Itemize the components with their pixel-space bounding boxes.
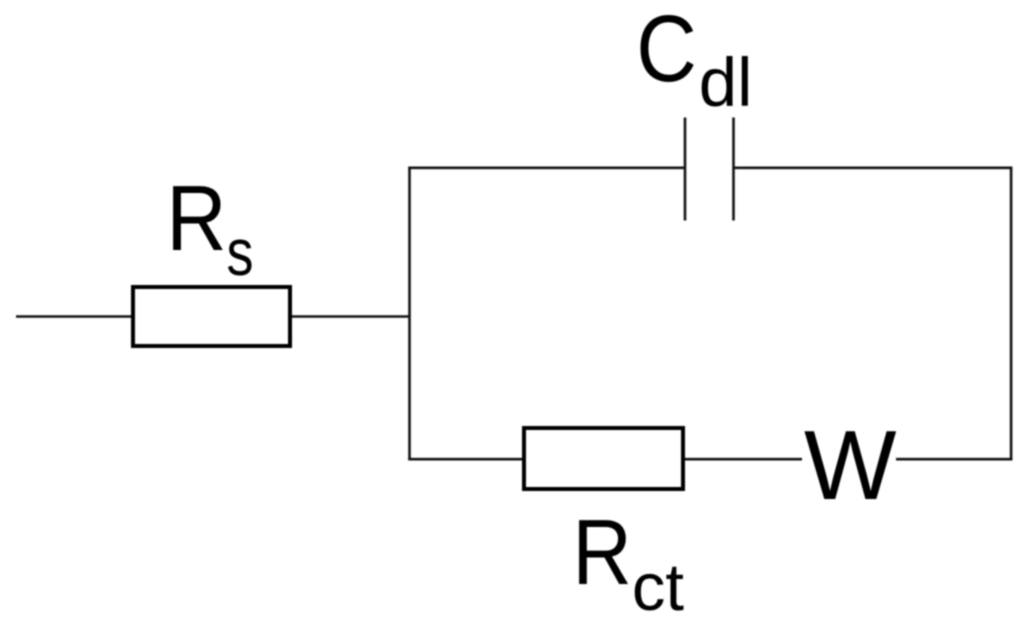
svg-text:W: W (804, 410, 897, 520)
wire right vertical of parallel loop (1010, 168, 1013, 460)
wire top left segment to capacitor (408, 167, 685, 170)
svg-text:C: C (636, 0, 697, 102)
wire W to right vertical (896, 458, 1012, 461)
svg-text:s: s (227, 215, 254, 289)
wire left vertical of parallel loop (408, 168, 411, 459)
svg-text:R: R (572, 500, 632, 604)
wire left lead (16, 315, 131, 318)
label C_dl (636, 0, 752, 121)
resistor Rct body (524, 428, 683, 489)
wire Rct to W (685, 458, 802, 461)
capacitor C_dl right plate (732, 118, 735, 221)
label R_s (166, 166, 253, 289)
wire Rs to node A (292, 315, 410, 318)
resistor Rs body (133, 287, 290, 346)
svg-text:R: R (166, 166, 226, 270)
wire bottom left segment to Rct (408, 458, 522, 461)
wire top right segment from capacitor (734, 167, 1013, 170)
svg-text:dl: dl (699, 44, 753, 121)
label R_ct (572, 500, 684, 621)
capacitor C_dl left plate (684, 118, 687, 221)
svg-text:ct: ct (632, 550, 685, 621)
